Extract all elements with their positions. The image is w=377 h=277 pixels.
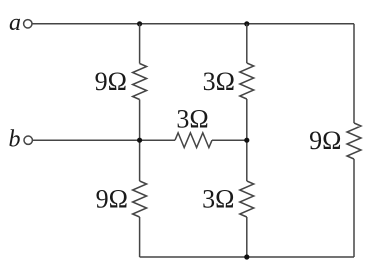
- junction top-left node: [137, 21, 142, 26]
- svg-text:a: a: [9, 10, 21, 36]
- wire mid vertical lower: [246, 217, 248, 257]
- svg-text:3Ω: 3Ω: [203, 67, 235, 96]
- wire left vertical lower: [139, 217, 141, 257]
- svg-text:9Ω: 9Ω: [96, 185, 128, 214]
- wire mid vertical middle: [246, 99, 248, 181]
- resistor 3ohm upper-mid: [240, 63, 254, 99]
- wire mid vertical upper: [246, 24, 248, 63]
- junction bottom-mid node: [244, 254, 249, 259]
- wire left vertical middle: [139, 100, 141, 182]
- junction middle-mid node: [244, 138, 249, 143]
- wire middle right: [212, 139, 247, 141]
- svg-text:9Ω: 9Ω: [95, 67, 127, 96]
- terminal b: [24, 136, 32, 144]
- resistor 3ohm lower-mid: [240, 181, 254, 217]
- svg-text:9Ω: 9Ω: [309, 126, 341, 155]
- resistor 9ohm right: [347, 123, 361, 159]
- svg-text:3Ω: 3Ω: [176, 105, 208, 134]
- terminal a: [24, 20, 32, 28]
- wire left vertical upper: [139, 24, 141, 64]
- resistor 9ohm lower-left: [133, 181, 147, 217]
- wire bottom: [140, 256, 354, 258]
- svg-text:3Ω: 3Ω: [202, 185, 234, 214]
- junction top-mid node: [244, 21, 249, 26]
- junction middle-left node: [137, 138, 142, 143]
- svg-text:b: b: [9, 127, 21, 153]
- resistor 9ohm upper-left: [133, 64, 147, 100]
- resistor 3ohm middle horizontal: [175, 133, 212, 148]
- wire right vertical upper: [353, 24, 355, 123]
- wire top: [32, 23, 354, 25]
- wire middle left: [33, 139, 175, 141]
- wire right vertical lower: [353, 159, 355, 257]
